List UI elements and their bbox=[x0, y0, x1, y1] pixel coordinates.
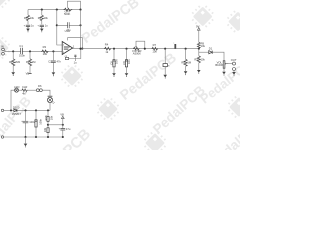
capacitor C101 box bbox=[35, 120, 37, 127]
node junction bbox=[47, 136, 49, 138]
svg-text:R6: R6 bbox=[38, 16, 42, 20]
wire bbox=[35, 110, 37, 137]
wire bbox=[113, 49, 115, 60]
node VB flag bbox=[28, 72, 31, 74]
wire bbox=[198, 49, 200, 56]
ground bbox=[27, 27, 29, 29]
svg-text:CLR: CLR bbox=[22, 85, 27, 89]
wire op-amp lower loop bbox=[69, 49, 81, 59]
svg-text:VB: VB bbox=[26, 71, 30, 75]
svg-text:VB: VB bbox=[60, 113, 64, 117]
node junction bbox=[29, 50, 31, 52]
watermark chip left edge bbox=[0, 33, 14, 62]
wire bbox=[19, 89, 22, 91]
wire op-amp top jog bbox=[68, 38, 83, 49]
resistor R3 bbox=[41, 50, 48, 53]
svg-text:D1: D1 bbox=[209, 46, 213, 50]
capacitor C100 bbox=[23, 121, 29, 123]
wire trimmer wiper loop bbox=[68, 1, 81, 9]
watermark chip top-right bbox=[188, 2, 217, 31]
resistor R5 bbox=[26, 15, 29, 21]
svg-text:47n: 47n bbox=[57, 59, 62, 63]
wire bbox=[185, 66, 187, 71]
svg-text:10n: 10n bbox=[127, 59, 131, 64]
svg-text:1M: 1M bbox=[187, 60, 191, 64]
op-amp U1 bbox=[62, 42, 72, 55]
wire LED branch bbox=[11, 90, 14, 110]
label U1 bbox=[64, 46, 70, 47]
capacitor C4 vertical bbox=[74, 55, 76, 56]
svg-text:C8: C8 bbox=[109, 61, 113, 65]
input jack pad tip bbox=[2, 48, 5, 51]
resistor R2 bbox=[28, 59, 31, 66]
resistor R10 bbox=[197, 56, 200, 63]
svg-text:1N5817: 1N5817 bbox=[12, 112, 22, 116]
wire bbox=[29, 51, 31, 58]
wire bbox=[12, 66, 14, 72]
capacitor C3 below op-amp bbox=[65, 57, 68, 59]
svg-text:10k: 10k bbox=[201, 44, 206, 48]
wire bbox=[212, 52, 224, 61]
wire bbox=[49, 103, 51, 111]
svg-text:4k7: 4k7 bbox=[22, 92, 27, 96]
diode D1 bbox=[209, 51, 212, 54]
wire to diode bbox=[199, 51, 209, 53]
wire op-amp output bbox=[73, 48, 199, 50]
pad LED- bbox=[40, 89, 43, 92]
out jack pad sleeve bbox=[233, 68, 236, 71]
dc jack sleeve pad bbox=[1, 136, 3, 138]
wire feedback to output bbox=[80, 10, 82, 49]
wire bbox=[52, 62, 54, 72]
wire bbox=[185, 49, 187, 60]
wire VB row bbox=[48, 124, 63, 126]
svg-text:R5: R5 bbox=[24, 16, 28, 20]
svg-text:10k: 10k bbox=[201, 57, 206, 61]
watermark chip bottom-center bbox=[140, 128, 169, 157]
resistor R102 box bbox=[47, 128, 49, 133]
node junction bbox=[81, 48, 83, 50]
node junction bbox=[56, 24, 58, 26]
wire branch B drop bbox=[41, 10, 43, 15]
svg-text:B100K: B100K bbox=[215, 63, 223, 67]
node junction bbox=[47, 109, 49, 111]
wire bbox=[28, 89, 37, 91]
LED bbox=[15, 88, 19, 92]
wire inverting input drop bbox=[57, 10, 62, 45]
svg-text:10k: 10k bbox=[152, 50, 157, 54]
capacitor C11 on wire bbox=[174, 44, 176, 49]
node junction bbox=[10, 109, 12, 111]
node junction bbox=[35, 136, 37, 138]
wire to out jack bbox=[229, 63, 233, 65]
wire branch A drop bbox=[27, 10, 29, 15]
node junction bbox=[24, 136, 26, 138]
node junction bbox=[47, 124, 49, 126]
svg-text:10k: 10k bbox=[49, 115, 53, 120]
svg-text:D100: D100 bbox=[13, 105, 20, 109]
wire 9V rail bbox=[4, 109, 50, 111]
svg-text:OUT: OUT bbox=[231, 58, 237, 62]
wire bbox=[27, 21, 29, 25]
svg-text:10k: 10k bbox=[30, 16, 35, 20]
wire filter wiper loop bbox=[136, 41, 145, 49]
watermark chip mid-left bbox=[57, 61, 86, 90]
ground bbox=[184, 71, 188, 74]
ground bbox=[11, 72, 15, 75]
node junction bbox=[125, 48, 127, 50]
ground bbox=[222, 72, 226, 75]
svg-text:1u: 1u bbox=[74, 61, 77, 65]
wire divider bbox=[47, 110, 49, 137]
wire bbox=[12, 51, 14, 58]
wire bbox=[126, 67, 128, 73]
capacitor C5 bbox=[26, 25, 30, 26]
wire bbox=[233, 71, 235, 73]
wiper arrow bbox=[135, 46, 137, 48]
wire feedback rail bbox=[28, 9, 81, 11]
svg-text:R1: R1 bbox=[9, 60, 13, 64]
capacitor C8 box bbox=[113, 60, 115, 67]
capacitor C9 box bbox=[125, 60, 127, 67]
potentiometer FILTER bbox=[133, 47, 140, 50]
watermark chip center bbox=[93, 94, 122, 123]
svg-text:500K: 500K bbox=[64, 12, 70, 16]
node junction bbox=[185, 48, 187, 50]
svg-text:10n: 10n bbox=[115, 59, 119, 64]
zener D7 bbox=[48, 95, 53, 97]
node junction bbox=[164, 48, 166, 50]
wire filter cap drop bbox=[25, 110, 27, 137]
potentiometer VOL bbox=[223, 61, 225, 68]
svg-text:R7: R7 bbox=[153, 43, 157, 47]
svg-text:C1: C1 bbox=[19, 44, 23, 48]
svg-text:IN: IN bbox=[1, 45, 4, 49]
wire bbox=[52, 51, 54, 60]
capacitor C6 bbox=[40, 25, 44, 26]
svg-text:10k: 10k bbox=[43, 52, 48, 56]
resistor R6 bbox=[40, 15, 43, 21]
node junction bbox=[79, 24, 81, 26]
ground bbox=[197, 70, 201, 73]
capacitor C10 bbox=[163, 64, 167, 67]
svg-text:c: c bbox=[173, 42, 174, 44]
wire bbox=[164, 67, 166, 75]
wire bbox=[42, 90, 50, 96]
resistor R8 bbox=[184, 59, 187, 66]
svg-text:R16: R16 bbox=[44, 115, 48, 120]
resistor CLR bbox=[22, 89, 28, 92]
flag VB bbox=[62, 119, 64, 125]
resistor R1 bbox=[12, 59, 15, 66]
resistor R7 bbox=[152, 47, 159, 50]
node junction bbox=[79, 48, 81, 50]
svg-text:100n: 100n bbox=[39, 118, 43, 124]
wire ground rail bbox=[4, 136, 63, 138]
wire bbox=[198, 63, 200, 70]
svg-text:100n: 100n bbox=[19, 54, 25, 58]
wire bbox=[113, 67, 115, 73]
ground bbox=[41, 27, 43, 29]
ground bbox=[163, 75, 167, 78]
svg-text:R3: R3 bbox=[43, 45, 47, 49]
capacitor C102 bbox=[62, 125, 64, 128]
wire bbox=[164, 49, 166, 64]
capacitor C7 bbox=[68, 22, 70, 28]
svg-text:1M: 1M bbox=[32, 60, 36, 64]
svg-text:LED: LED bbox=[14, 85, 19, 89]
wire bbox=[29, 66, 31, 74]
node junction bbox=[198, 48, 200, 50]
pad LED+ bbox=[36, 89, 39, 92]
node junction bbox=[56, 9, 58, 11]
wire fb cap row bbox=[57, 24, 81, 26]
resistor R9 bbox=[197, 42, 200, 48]
watermark chip top-left corner bbox=[0, 0, 14, 12]
svg-text:10k: 10k bbox=[43, 127, 47, 132]
watermark chip right edge top bbox=[223, 7, 252, 36]
wire input main bbox=[4, 50, 62, 52]
dc jack pad bbox=[1, 109, 3, 111]
wire bbox=[62, 130, 64, 137]
svg-text:C9: C9 bbox=[122, 61, 126, 65]
trimmer GR7 bbox=[64, 8, 73, 11]
node junction bbox=[24, 109, 26, 111]
capacitor C1 bbox=[21, 48, 23, 54]
svg-text:R2: R2 bbox=[26, 60, 30, 64]
wire pot bottom bbox=[223, 68, 225, 72]
node junction bbox=[113, 48, 115, 50]
input jack pad sleeve bbox=[2, 52, 5, 55]
ground bbox=[112, 73, 116, 76]
wire 9V drop bbox=[198, 30, 200, 42]
node junction bbox=[41, 9, 43, 11]
node junction bbox=[62, 136, 64, 138]
svg-text:10k: 10k bbox=[44, 16, 49, 20]
node junction bbox=[35, 109, 37, 111]
capacitor C2 bbox=[51, 61, 56, 62]
svg-text:1u: 1u bbox=[31, 24, 34, 28]
resistor R4 bbox=[104, 47, 111, 50]
svg-text:A500K: A500K bbox=[133, 51, 141, 55]
node junction bbox=[52, 50, 54, 52]
ground bbox=[232, 72, 236, 75]
node junction bbox=[12, 50, 14, 52]
out jack pad tip bbox=[233, 62, 236, 65]
ground bbox=[25, 137, 27, 144]
watermark chip right edge bottom bbox=[224, 92, 253, 121]
svg-text:47u: 47u bbox=[66, 127, 71, 131]
node junction bbox=[62, 124, 64, 126]
wire bbox=[41, 21, 43, 25]
svg-text:C2: C2 bbox=[48, 59, 52, 63]
svg-text:2M2: 2M2 bbox=[15, 60, 21, 64]
svg-text:R10: R10 bbox=[194, 57, 199, 61]
svg-text:1u: 1u bbox=[45, 24, 48, 28]
ground bbox=[52, 72, 56, 75]
svg-text:U1A: U1A bbox=[65, 29, 70, 33]
node junction bbox=[79, 9, 81, 11]
wire bbox=[126, 49, 128, 60]
svg-text:R8: R8 bbox=[181, 60, 185, 64]
node junction bbox=[144, 48, 146, 50]
svg-text:D6: D6 bbox=[38, 84, 42, 88]
diode D100 bbox=[14, 109, 17, 112]
svg-text:R4: R4 bbox=[105, 42, 109, 46]
resistor R101 box bbox=[47, 117, 49, 122]
wiper arrow bbox=[226, 63, 229, 65]
ground bbox=[125, 73, 129, 76]
